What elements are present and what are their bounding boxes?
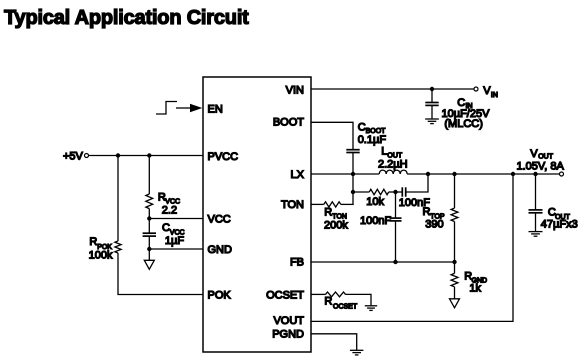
wire R_TOP to FB node (454, 222, 456, 263)
wire 100nF shunt to FB (395, 221, 397, 262)
svg-text:TON: TON (281, 199, 304, 211)
ground under PGND (350, 349, 364, 351)
svg-text:POK: POK (208, 290, 232, 302)
ground under C_IN (425, 118, 439, 120)
capacitor C_VCC (143, 232, 156, 234)
junction GND node (147, 247, 151, 251)
wire VIN to V_IN terminal (311, 88, 474, 90)
wire +5V down to R_POK (117, 156, 119, 242)
svg-text:R: R (324, 206, 332, 218)
node V_IN terminal (474, 87, 478, 91)
junction rail/R_TOP (452, 172, 456, 176)
wire node to 10k (353, 191, 369, 193)
svg-text:FB: FB (290, 257, 304, 269)
svg-text:2.2: 2.2 (162, 205, 177, 217)
svg-text:(MLCC): (MLCC) (444, 118, 483, 130)
resistor R_TON (324, 202, 341, 207)
svg-text:100nF: 100nF (360, 215, 391, 227)
wire FB node to R_GND (454, 262, 456, 273)
svg-text:GND: GND (208, 244, 233, 256)
wire BOOT (311, 122, 353, 149)
wire R_TON to node (341, 203, 354, 205)
wire TON (311, 203, 324, 205)
wire C_VCC to GND node (148, 236, 150, 260)
wire OCSET (311, 293, 326, 295)
svg-text:C: C (358, 121, 366, 133)
junction 10k/100nF (393, 190, 397, 194)
svg-text:C: C (457, 97, 465, 109)
svg-text:1µF: 1µF (165, 235, 184, 247)
junction VCC node (147, 216, 151, 220)
svg-text:V: V (530, 148, 538, 160)
svg-text:IN: IN (491, 92, 498, 99)
wire R_GND to ground (454, 287, 456, 299)
svg-text:PVCC: PVCC (208, 151, 239, 163)
inductor L_OUT (379, 170, 407, 174)
IC U1 body (203, 77, 311, 352)
wire inductor to V_OUT terminal (407, 173, 559, 175)
svg-text:EN: EN (208, 103, 223, 115)
resistor 10k (369, 189, 388, 194)
wire PGND to ground (311, 334, 357, 350)
svg-text:VIN: VIN (286, 84, 304, 96)
ground under C_OUT (529, 231, 543, 233)
svg-text:2.2µH: 2.2µH (378, 158, 408, 170)
wire FB (311, 261, 455, 263)
junction +5V/R_POK (116, 153, 120, 157)
svg-text:R: R (89, 236, 97, 248)
svg-text:R: R (324, 296, 332, 308)
capacitor C_OUT (529, 209, 543, 211)
capacitor 100nF shunt (390, 217, 402, 219)
junction FB/R_GND (452, 260, 456, 264)
resistor R_POK (115, 241, 121, 253)
svg-text:390: 390 (425, 218, 443, 230)
svg-text:200k: 200k (324, 220, 348, 232)
junction rail/C_OUT (533, 172, 537, 176)
svg-text:BOOT: BOOT (273, 116, 304, 128)
node V_OUT terminal (560, 172, 564, 176)
wire VCC pin (149, 218, 203, 220)
junction rail/VOUT (511, 172, 515, 176)
EN arrow (176, 107, 191, 109)
svg-text:C: C (162, 222, 170, 234)
svg-text:OCSET: OCSET (266, 290, 304, 302)
wire 10k to 100nF (389, 191, 403, 193)
wire VOUT pin to rail (311, 174, 513, 321)
svg-text:R: R (423, 206, 431, 218)
capacitor C_IN (425, 102, 438, 104)
resistor R_TOP (451, 208, 458, 221)
wire C_IN top (431, 89, 433, 102)
junction 10k node (351, 190, 355, 194)
step waveform input symbol (156, 102, 177, 115)
wire C_OUT top (535, 174, 537, 210)
wire +5V down to R_VCC (148, 156, 150, 195)
svg-text:100k: 100k (89, 249, 113, 261)
svg-text:OCSET: OCSET (333, 304, 358, 311)
wire C_IN bottom (431, 106, 433, 119)
junction FB/100nF (393, 260, 397, 264)
svg-text:+5V: +5V (63, 150, 84, 162)
svg-text:10k: 10k (366, 196, 384, 208)
wire R_POK to POK (118, 253, 203, 295)
svg-text:LX: LX (291, 169, 305, 181)
ground triangle under C_VCC (144, 260, 154, 269)
wire LX to inductor (311, 173, 379, 175)
wire 100nF up to rail (406, 174, 428, 192)
junction rail/RC (426, 172, 430, 176)
ground under R_OCSET (365, 305, 377, 307)
resistor R_OCSET (326, 292, 346, 297)
svg-text:PGND: PGND (272, 328, 304, 340)
resistor R_VCC (146, 194, 153, 209)
svg-text:47µFx3: 47µFx3 (541, 218, 578, 230)
wire GND pin (149, 248, 203, 250)
svg-text:0.1µF: 0.1µF (358, 134, 387, 146)
svg-text:VCC: VCC (208, 214, 231, 226)
wire C_OUT bottom (535, 213, 537, 231)
junction C_IN (430, 87, 434, 91)
resistor R_GND (451, 273, 458, 286)
wire +5V to PVCC (89, 155, 203, 157)
junction +5V/R_VCC (147, 153, 151, 157)
svg-text:1.05V, 8A: 1.05V, 8A (517, 161, 565, 173)
wire C_BOOT to LX (352, 153, 354, 205)
junction LX/BOOT (351, 172, 355, 176)
wire R_VCC to VCC node (148, 209, 150, 233)
ground triangle under R_GND (450, 299, 460, 308)
capacitor C_BOOT (346, 149, 359, 151)
svg-text:VOUT: VOUT (273, 315, 304, 327)
svg-text:1k: 1k (469, 282, 481, 294)
svg-text:Typical Application Circuit: Typical Application Circuit (4, 7, 249, 29)
wire rail to R_TOP (454, 174, 456, 208)
capacitor 100nF series (401, 187, 403, 196)
wire 100nF shunt top (395, 192, 397, 218)
wire R_OCSET to ground (346, 294, 372, 305)
